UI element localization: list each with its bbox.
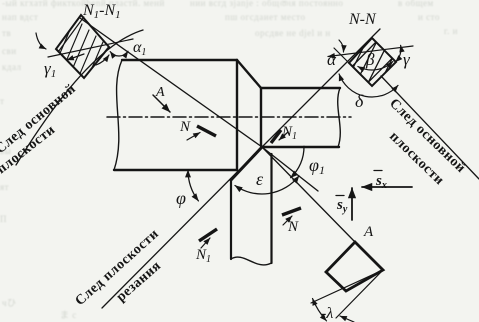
N-N rake inner double line [369, 59, 392, 82]
machined part bottom edge [262, 146, 339, 148]
tool break line (wavy bottom) [231, 257, 272, 265]
N1-N1 rake face double line [59, 17, 84, 51]
svg-text:N: N [179, 119, 191, 135]
machined part break line (wavy right edge) [338, 88, 341, 147]
pointer arrow right of N1 square [96, 55, 109, 65]
workpiece big rectangle right edge [236, 60, 238, 170]
workpiece break line (wavy left edge) [114, 60, 122, 170]
gamma1 inner arrow [67, 54, 84, 60]
svg-text:A: A [363, 224, 374, 240]
section mark N1 vertex arrow [279, 132, 288, 140]
N1-N1 main plane trace line [48, 39, 133, 57]
tool main cutting edge [231, 147, 262, 180]
angle epsilon arc [235, 176, 299, 194]
svg-text:N1-N1: N1-N1 [82, 2, 121, 21]
axis center line [107, 116, 351, 118]
trace of main plane line (top-left) [16, 30, 143, 165]
svg-text:α: α [327, 50, 337, 69]
tool right edge [270, 154, 272, 263]
wire: view line to A square [262, 147, 355, 242]
svg-text:A: A [155, 85, 165, 100]
svg-text:sx: sx [375, 173, 387, 191]
wire: cutting plane trace up-right to N-N [262, 29, 380, 147]
lambda arrow lower [340, 316, 354, 322]
lambda reference line 1 [311, 270, 383, 303]
angle alpha1 arc [110, 51, 128, 56]
lambda reference line 2 [336, 270, 383, 318]
angle alpha pointer [339, 40, 344, 52]
section mark N lower stroke [282, 208, 301, 215]
N-N main plane trace line [328, 46, 413, 57]
gamma1 pointer arrow (left) [36, 33, 46, 49]
angle -lambda arc [313, 299, 327, 321]
angle gamma arc [396, 45, 401, 62]
machined part left edge [260, 88, 262, 146]
N1-N1 hatching [48, 12, 110, 95]
section mark N lower arrow [283, 216, 292, 225]
svg-text:δ: δ [355, 91, 364, 111]
overline of sy [336, 195, 344, 197]
section mark N1 lower arrow [201, 238, 210, 248]
machined part top edge [261, 87, 340, 89]
svg-text:N1: N1 [281, 124, 297, 142]
wire: cutting plane trace down-left [102, 147, 262, 308]
workpiece big rectangle bottom edge [114, 169, 237, 171]
svg-text:N-N: N-N [348, 11, 377, 28]
tool left edge [230, 179, 232, 259]
svg-text:α1: α1 [133, 39, 146, 58]
svg-text:-λ: -λ [321, 305, 333, 322]
view A direction arrow [153, 95, 170, 112]
section mark N1 lower stroke [199, 229, 217, 241]
angle beta arc [358, 62, 393, 70]
wire: auxiliary cutting edge [262, 147, 318, 191]
section mark N upper stroke [197, 126, 216, 136]
svg-text:φ: φ [176, 188, 186, 208]
view A square [326, 242, 383, 291]
N-N flank face double line [353, 43, 376, 66]
svg-text:N1: N1 [195, 247, 211, 265]
section mark N upper arrow [187, 133, 200, 141]
wire: auxiliary trace up-left [80, 18, 262, 147]
svg-text:γ1: γ1 [44, 59, 56, 80]
feed arrow sy [351, 188, 353, 220]
angle delta arc [339, 74, 398, 97]
section N1-N1 square [48, 12, 110, 95]
svg-text:γ: γ [403, 50, 411, 69]
svg-text:β: β [365, 50, 375, 69]
N-N hatching [350, 30, 395, 97]
svg-text:φ1: φ1 [309, 155, 325, 177]
section N-N square [349, 30, 396, 97]
N-N flank face extension [334, 48, 349, 63]
svg-text:ε: ε [256, 169, 264, 189]
section mark N1 vertex stroke [271, 130, 281, 143]
angle phi arc [188, 170, 198, 201]
angle phi1 arc [291, 146, 304, 177]
svg-text:N: N [287, 219, 299, 235]
trace of main plane line (right) [381, 76, 479, 179]
workpiece big rectangle top edge [122, 59, 237, 61]
svg-text:sy: sy [336, 197, 348, 215]
overline of sx [374, 170, 382, 172]
chamfer cone line [237, 60, 261, 88]
faint bleed-through scan text [2, 0, 165, 8]
feed arrow sx [362, 186, 412, 188]
